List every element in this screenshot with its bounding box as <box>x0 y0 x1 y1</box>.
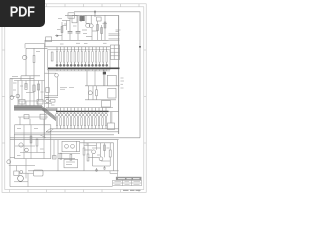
cathode bus dark bar lower array <box>56 110 109 112</box>
wire link mid <box>92 30 98 32</box>
capacitor C2 plates <box>76 31 81 33</box>
wire y145.5 out <box>84 145 97 147</box>
wire vertical branch c <box>91 28 93 40</box>
wire vertical x31 module <box>30 125 32 159</box>
lamp cell 10 lower array stubs <box>88 108 90 129</box>
wire vertical x37 module <box>36 146 38 153</box>
resistor R29 lower array <box>84 118 85 126</box>
lamp V21 lower array <box>56 113 59 116</box>
wire y131.8 long <box>46 131 119 133</box>
wire vertical x42 column <box>41 81 43 100</box>
wire y152.5 in module <box>20 152 45 154</box>
resistor R19 upper array <box>85 52 86 63</box>
lamp cell 12 upper array stubs <box>95 47 97 64</box>
wire bottom rail of supply block <box>45 40 109 47</box>
wire bottom return y186.6 <box>10 186 113 188</box>
module box outline bottom left <box>15 125 51 159</box>
transistor Q5 <box>16 94 20 98</box>
resistor R16 <box>83 148 85 155</box>
resistor R17 <box>87 154 89 161</box>
wire vertical x22 column <box>21 81 23 100</box>
resistor R15 upper array <box>71 52 72 63</box>
wire vertical x100 <box>100 143 102 157</box>
resistor R17 upper array <box>78 52 79 63</box>
wire input stub left <box>55 35 62 37</box>
component box small a <box>24 115 29 119</box>
lamp V10 upper array <box>88 64 90 66</box>
resistor R10 <box>51 100 56 103</box>
title block header text slits <box>118 178 140 179</box>
wire y73 link <box>45 72 57 74</box>
wire pair to right rail upper <box>109 34 120 35</box>
pin stubs below upper array <box>57 69 107 71</box>
resistor R27 lower array <box>77 118 78 126</box>
wire vertical x110 b <box>109 157 111 166</box>
lamp V9 upper array <box>84 64 86 66</box>
lamp cell 5 lower array stubs <box>70 108 72 129</box>
lamp V28 lower array <box>80 113 83 116</box>
wire y92.5 column <box>26 92 34 94</box>
wire vertical x18 <box>17 81 19 102</box>
transistor Q4 <box>10 96 14 100</box>
lamp cell 9 lower array stubs <box>84 108 86 129</box>
resistor R6 <box>33 56 35 63</box>
lamp V11 upper array <box>91 64 93 66</box>
wire vertical x26 mic <box>25 159 27 179</box>
resistor R114 upper array <box>102 52 103 63</box>
label text right rail <box>116 30 121 32</box>
wire vertical x30 <box>29 76 31 101</box>
sheet border outer frame <box>2 4 146 193</box>
title block header band <box>116 177 142 181</box>
lamp cell 14 upper array stubs <box>102 47 104 64</box>
wire vertical x57.5 middle <box>57 77 59 96</box>
transistor Q7 <box>46 99 50 103</box>
lamp V2 upper array <box>59 64 61 66</box>
resistor R7 <box>25 84 27 90</box>
lamp cell 1 upper array stubs <box>56 47 58 64</box>
wire vertical x66.5 <box>66 21 68 31</box>
terminal box left end <box>46 37 52 42</box>
lamp V23 lower array <box>63 113 66 116</box>
wire vertical x87 <box>86 70 88 86</box>
transistor Q3 <box>23 55 27 59</box>
wire drop from bus 1 to node <box>94 12 96 17</box>
ic box U2 <box>62 141 80 151</box>
lamp V15 upper array <box>106 64 108 66</box>
wire bottom bus line 2 <box>10 139 119 141</box>
wire link mic to speaker <box>19 172 34 174</box>
connector J1 body <box>111 45 120 60</box>
wire fan diagonal 1 <box>46 129 50 132</box>
wire y133 in module <box>15 132 51 134</box>
transistor Q6 <box>55 74 59 78</box>
resistor R16 upper array <box>74 52 75 63</box>
component box small b <box>40 114 46 119</box>
wire bar extension lower array <box>109 110 119 112</box>
wire drop x20 <box>19 117 21 125</box>
lamp cell 7 lower array stubs <box>77 108 79 129</box>
wire vertical x26 <box>25 81 27 89</box>
wire vertical x104.5 out <box>104 143 106 158</box>
title block row divider <box>113 182 142 184</box>
fuse F1 on bus 2 <box>68 13 75 18</box>
lamp V26 lower array <box>73 113 76 116</box>
lamp V29 lower array <box>84 113 87 116</box>
resistor R13 <box>36 139 38 146</box>
wire y117 pre-module <box>18 116 48 118</box>
wire vertical branch d <box>97 21 99 40</box>
wire feed bus above array <box>45 46 111 48</box>
label marks left column <box>13 83 44 92</box>
wire y158 center <box>58 157 75 159</box>
lamp V12 upper array <box>95 64 97 66</box>
wire y103 link <box>45 103 53 105</box>
resistor R5 array left <box>51 52 53 61</box>
ground symbol G1 <box>95 168 98 171</box>
resistor R112 upper array <box>95 52 96 63</box>
ribbon cable bus continuation <box>42 108 57 110</box>
wire upper link left block <box>25 44 45 49</box>
lamp cell 8 upper array stubs <box>81 47 83 64</box>
transistor Q9 <box>19 143 23 147</box>
lamp V210 lower array <box>87 113 90 116</box>
resistor R113 upper array <box>99 52 100 63</box>
footer filename text bottom margin <box>123 189 141 191</box>
component box above lower array <box>102 101 111 108</box>
wire vertical x21 link <box>20 76 22 81</box>
connector J1 pins <box>111 49 120 56</box>
relay K2 box <box>108 88 116 98</box>
capacitor C1 plates <box>68 31 73 33</box>
lamp V7 upper array <box>77 64 79 66</box>
wire link y30 <box>82 29 87 31</box>
lamp cell 11 upper array stubs <box>92 47 94 64</box>
resistor R18 <box>109 150 111 157</box>
wire vertical x96.5 b <box>96 96 98 100</box>
lamp cell 15 lower array stubs <box>105 108 107 129</box>
lamp V13 upper array <box>99 64 101 66</box>
capacitor C2 wires <box>77 15 79 40</box>
regulator box U1 <box>97 17 102 21</box>
resistor R211 lower array <box>91 118 92 126</box>
connector box above band left <box>19 100 25 105</box>
wire y134.8 long <box>14 134 114 136</box>
lamp cell 13 lower array stubs <box>98 108 100 129</box>
wire y148 out <box>92 147 101 149</box>
wire collect bus below lower array <box>50 128 119 130</box>
lamp cell 3 lower array stubs <box>63 108 65 129</box>
lamp V3 upper array <box>63 64 65 66</box>
lamp cell 1 lower array stubs <box>56 108 58 129</box>
rectifier box D1 <box>72 16 77 23</box>
ic U2 circle a <box>65 144 69 148</box>
lamp V6 upper array <box>74 64 76 66</box>
lamp cell 5 upper array stubs <box>70 47 72 64</box>
connector box above band right <box>37 100 43 105</box>
lamp V211 lower array <box>91 113 94 116</box>
wire vertical x44 module <box>43 125 45 159</box>
wire vertical x84 <box>83 140 85 148</box>
lamp cell 8 lower array stubs <box>81 108 83 129</box>
resistor R20 <box>104 145 106 151</box>
right small box lower <box>108 123 115 130</box>
wire fan diagonal 2 <box>49 129 54 133</box>
transistor Q16 input <box>7 160 11 164</box>
wire vertical x95 middle <box>94 70 96 86</box>
lamp indicator small <box>20 171 23 174</box>
diode D2 arrow <box>57 34 59 37</box>
resistor R11 upper array <box>56 52 57 63</box>
wire vertical x38.5 <box>38 81 40 102</box>
wire vertical x96.5 <box>96 86 98 90</box>
wire vertical x88 <box>87 143 89 154</box>
label marks near Q7 <box>46 98 55 105</box>
wire vertical x34 <box>33 76 35 101</box>
lamp V213 lower array <box>98 113 101 116</box>
label marks in Y1 <box>66 162 75 165</box>
resistor R13 upper array <box>63 52 64 63</box>
wire y142.8 <box>80 142 114 144</box>
resistor R23 lower array <box>63 118 64 126</box>
wire top supply bus 1 <box>74 12 140 138</box>
label marks between rails <box>60 42 107 45</box>
junction box small bottom center <box>53 156 57 160</box>
wire link y36.5 <box>86 36 92 38</box>
resistor R28 lower array <box>81 118 82 126</box>
wire y166 <box>93 165 111 167</box>
transistor Q2 <box>89 24 93 28</box>
wire y161 out <box>101 160 110 162</box>
resistor R14 <box>60 153 62 159</box>
wire pair to right rail lower <box>109 39 120 40</box>
polarity mark dark <box>103 72 106 75</box>
wire stub x84 <box>83 15 85 20</box>
resistor R110 upper array <box>88 52 89 63</box>
lamp V22 lower array <box>59 113 62 116</box>
ribbon cable bus left <box>14 106 42 110</box>
wire vertical left block a <box>25 48 27 76</box>
wire link y25.5 <box>62 25 67 27</box>
anode bus dark bar upper array <box>48 67 120 69</box>
resistor R115 upper array <box>106 52 107 63</box>
wire drop x44 <box>43 119 45 125</box>
wire y97.3 <box>45 96 59 98</box>
transformer T1 core dark block <box>80 16 85 21</box>
relay coil box bottom left <box>14 171 19 175</box>
wire rail x44.5 <box>44 47 46 139</box>
transistor Q11 <box>92 150 96 154</box>
ribbon taps rising <box>18 101 38 106</box>
lamp V24 lower array <box>66 113 69 116</box>
wire vertical supply branch a <box>61 22 63 40</box>
lamp V215 lower array <box>105 113 108 116</box>
ground symbol G2 <box>103 166 106 169</box>
wire y146 in module <box>15 145 35 147</box>
resistor R213 lower array <box>98 118 99 126</box>
wire vertical left block b <box>33 48 35 55</box>
wire y150 <box>84 149 92 151</box>
node junction dark tick on right rail <box>139 46 141 48</box>
wire stub x81 <box>80 15 82 22</box>
wire vertical x12 <box>11 78 13 95</box>
wire y85.8 <box>85 85 120 87</box>
lamp cell 6 upper array stubs <box>74 47 76 64</box>
lamp V214 lower array <box>101 113 104 116</box>
border grid ticks left margin <box>2 50 5 143</box>
wire horizontal y101 <box>18 100 45 102</box>
label marks module <box>17 129 44 156</box>
wire horizontal y96.5 <box>10 96 15 98</box>
lamp cell 13 upper array stubs <box>99 47 101 64</box>
transistor Q1 <box>86 23 90 27</box>
lamp cell 7 upper array stubs <box>77 47 79 64</box>
relay K1 box <box>107 75 116 86</box>
lamp cell 14 lower array stubs <box>102 108 104 129</box>
lamp V4 upper array <box>67 64 69 66</box>
ic U2 circle b <box>71 144 75 148</box>
lamp cell 10 upper array stubs <box>88 47 90 64</box>
wire vertical x16.4 mic <box>15 166 17 172</box>
border grid ticks right margin <box>144 50 146 143</box>
label text left block <box>12 52 40 77</box>
lamp V8 upper array <box>81 64 83 66</box>
wire vertical x113.5 <box>113 143 115 171</box>
wire vertical x88.5 <box>88 86 90 100</box>
wire right rail x118.6 <box>118 15 120 134</box>
resistor R212 lower array <box>95 118 96 126</box>
resistor R9 <box>37 84 39 90</box>
wire lower edge line upper array <box>48 70 111 72</box>
crystal box Y1 <box>64 159 78 168</box>
wire vertical x117.5 <box>117 140 119 171</box>
lamp cell 6 lower array stubs <box>74 108 76 129</box>
resistor R22 lower array <box>60 118 61 126</box>
wire link y20.5 <box>62 20 70 22</box>
meter M1 circle <box>18 176 24 182</box>
resistor R11 <box>96 90 98 96</box>
resistor R215 lower array <box>105 118 106 126</box>
wire y165.5 below module <box>9 165 35 167</box>
wire vertical x96.5 out <box>96 143 98 150</box>
resistor R25 lower array <box>70 118 71 126</box>
wire bottom rail left block <box>21 75 40 77</box>
speaker box LS1 <box>34 170 44 176</box>
component box mid left <box>46 88 49 93</box>
resistor R18 upper array <box>81 52 82 63</box>
wire vertical x54 bottom <box>53 140 55 159</box>
wire y181.8 mic <box>14 181 28 183</box>
wire top supply bus 2 <box>65 14 119 16</box>
wire y99.8 <box>85 99 116 101</box>
title block lower outline <box>113 180 142 185</box>
display array box DS1 <box>48 50 111 70</box>
resistor R210 lower array <box>88 118 89 126</box>
wire y157 <box>88 156 99 158</box>
wire vertical x84 b <box>83 155 85 171</box>
lamp cell 4 upper array stubs <box>67 47 69 64</box>
wire top rail left block <box>26 47 48 49</box>
wire vertical x92 b <box>92 154 94 166</box>
wire vertical branch e <box>101 25 103 40</box>
lamp V27 lower array <box>77 113 80 116</box>
resistor R214 lower array <box>102 118 103 126</box>
wire bottom bus line 1 <box>10 137 140 139</box>
wire stub x91 <box>90 15 92 23</box>
lamp V212 lower array <box>94 113 97 116</box>
wire bottom rail y171 <box>28 170 119 172</box>
border grid ticks bottom margin <box>10 190 140 193</box>
lamp cell 9 upper array stubs <box>84 47 86 64</box>
resistor R1 <box>61 27 63 33</box>
lamp cell 15 upper array stubs <box>106 47 108 64</box>
lamp cell 4 lower array stubs <box>67 108 69 129</box>
wire vertical x24 module <box>23 125 25 159</box>
resistor R15 <box>70 154 72 160</box>
ribbon fan diagonal wires <box>42 106 56 120</box>
lamp V1 upper array <box>56 64 58 66</box>
label marks output stage <box>86 144 110 155</box>
resistor R4 <box>104 22 106 28</box>
wire diagonal link bus <box>40 135 46 138</box>
PDF badge overlay <box>0 0 45 27</box>
resistor R12 upper array <box>60 52 61 63</box>
wire drop x30 <box>29 119 31 125</box>
lamp cell 3 upper array stubs <box>63 47 65 64</box>
wire feed bus above lower array <box>46 107 113 109</box>
lamp cell 2 lower array stubs <box>60 108 62 129</box>
title block cell text marks <box>115 182 141 185</box>
lamp V25 lower array <box>70 113 73 116</box>
wire left rail <box>9 78 11 186</box>
ic U2 divider <box>76 141 78 151</box>
title block column dividers <box>123 180 132 185</box>
wire vertical branch f <box>104 15 106 40</box>
resistor R8 <box>33 85 35 92</box>
wire horizontal y78 <box>10 77 34 79</box>
wire rail x48.5 <box>48 70 50 108</box>
wire y95.8 <box>45 95 59 97</box>
wire double drop right of lower array <box>111 112 112 123</box>
lamp V5 upper array <box>70 64 72 66</box>
resistor R12 <box>30 136 32 143</box>
connector J1 divider <box>113 45 115 60</box>
node junction on bus 1 <box>94 11 96 14</box>
wire vertical branch b <box>85 15 87 23</box>
resistor R111 upper array <box>92 52 93 63</box>
wire horizontal y80.5 <box>14 80 45 82</box>
transistor Q12 <box>99 157 103 161</box>
wire y153.5 center <box>58 153 80 155</box>
lamp cell 2 upper array stubs <box>60 47 62 64</box>
capacitor C1 wires <box>69 15 71 40</box>
label text marks supply block <box>57 19 107 34</box>
wire stub above title block <box>110 171 118 177</box>
wire input left <box>10 157 15 159</box>
wire double drop x104 <box>104 70 105 86</box>
transistor Q13 <box>25 148 29 152</box>
resistor R26 lower array <box>74 118 75 126</box>
wire vertical x58 bottom <box>57 140 59 171</box>
transistor Q8 <box>88 91 92 95</box>
wire vertical x28 mic <box>27 173 29 186</box>
wire link Q1 base <box>86 23 90 25</box>
border grid ticks top margin <box>47 4 140 7</box>
wire vertical left block b2 <box>33 63 35 76</box>
lamp cell 12 lower array stubs <box>95 108 97 129</box>
resistor R14 upper array <box>67 52 68 63</box>
label marks right rail column <box>121 78 125 88</box>
